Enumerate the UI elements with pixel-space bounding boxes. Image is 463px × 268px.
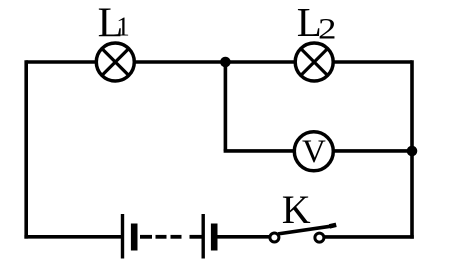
battery dashed link <box>140 235 203 239</box>
wire: switch to right rail <box>325 235 414 239</box>
wire: battery to switch <box>218 235 270 239</box>
svg-text:2: 2 <box>318 13 337 46</box>
battery cell 1 short plate <box>131 224 138 251</box>
node A junction dot <box>220 57 231 68</box>
wire: left vertical rail <box>24 60 28 238</box>
svg-text:K: K <box>282 187 311 232</box>
label L1 <box>98 1 130 47</box>
label L2 <box>297 0 337 46</box>
battery cell 2 short plate <box>211 224 218 251</box>
wire: bottom rail left segment (to battery) <box>24 235 122 239</box>
lamp L1 <box>96 43 134 81</box>
wire: top rail from left corner to right corner <box>26 60 412 64</box>
battery cell 1 long plate <box>121 214 124 259</box>
switch K blade <box>278 226 331 234</box>
lamp L2 <box>295 43 333 81</box>
wire: middle vertical from node A <box>224 62 228 151</box>
wire: voltmeter branch horizontal <box>224 149 412 153</box>
voltmeter U1 <box>294 132 333 171</box>
battery cell 2 long plate <box>201 214 204 259</box>
switch K left terminal <box>270 233 279 242</box>
svg-text:V: V <box>302 134 326 170</box>
wire: right vertical rail <box>410 60 414 238</box>
svg-text:1: 1 <box>116 12 130 42</box>
switch K right terminal <box>315 233 324 242</box>
node B junction dot <box>407 146 418 157</box>
